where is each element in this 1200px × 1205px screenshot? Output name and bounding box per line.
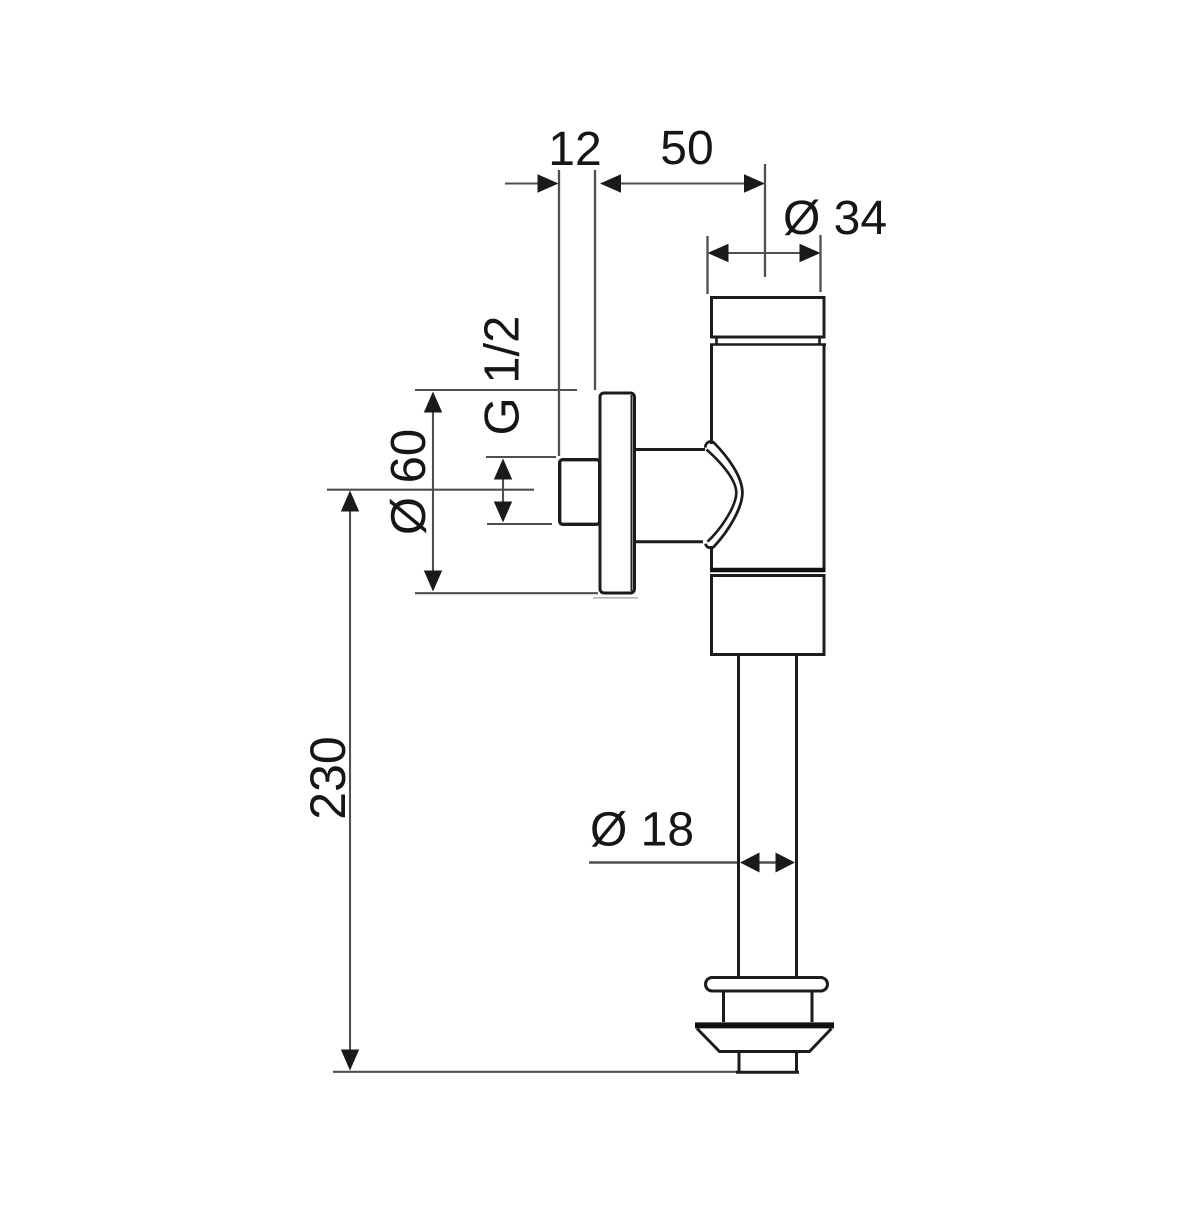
- arrow 12 left (pointing right): [538, 174, 559, 192]
- arrow 50 left (pointing left): [600, 174, 621, 192]
- dimension Ø60 label (rotated): [382, 429, 436, 535]
- extension line x=765 (pipe axis): [764, 164, 766, 277]
- tick 230 top (inlet axis centerline): [327, 489, 534, 491]
- arrow G1/2 top (pointing up): [494, 459, 512, 480]
- joint band (thick): [710, 568, 826, 573]
- arrow 50 right (pointing right): [744, 174, 765, 192]
- extension line x=595 (flange face): [594, 170, 596, 390]
- svg-text:Ø 34: Ø 34: [783, 192, 887, 245]
- svg-text:230: 230: [300, 736, 356, 819]
- arrow Ø18 left (pointing left): [740, 853, 760, 873]
- dimension 12 label: [548, 123, 601, 176]
- svg-text:50: 50: [660, 122, 713, 175]
- dome inner curve: [707, 450, 737, 542]
- push button: [560, 460, 600, 525]
- dimension Ø18 label: [590, 804, 694, 857]
- dim line Ø34: [726, 252, 800, 254]
- arrow Ø18 right (pointing right): [776, 853, 796, 873]
- arrow 230 bottom (pointing down): [341, 1050, 359, 1071]
- gasket cylinder: [724, 991, 813, 1022]
- top cap of valve body: [712, 298, 825, 338]
- leader line Ø18: [589, 861, 738, 864]
- inlet pipe bottom line: [636, 540, 703, 543]
- dim Ø60 vertical line: [432, 412, 434, 572]
- svg-text:Ø 18: Ø 18: [590, 804, 694, 857]
- svg-text:12: 12: [548, 123, 601, 176]
- dim line 12/50 horizontal: [505, 182, 747, 184]
- outlet downpipe: [739, 656, 797, 977]
- tick G1/2 top: [486, 456, 556, 458]
- svg-text:Ø 60: Ø 60: [382, 429, 436, 535]
- extension line Ø34 left: [706, 236, 708, 294]
- tick Ø60 bottom: [415, 592, 598, 594]
- arrow Ø34 left (pointing left): [708, 244, 729, 262]
- svg-text:G 1/2: G 1/2: [476, 316, 530, 436]
- wall flange plate: [600, 393, 635, 593]
- bottom collar (stadium ring): [706, 978, 828, 992]
- dimension 230 label (rotated): [300, 736, 356, 819]
- cap groove: [710, 338, 826, 345]
- extension line Ø34 right: [819, 235, 821, 292]
- cone (tapered seal): [697, 1029, 832, 1052]
- dimension Ø34 label: [783, 192, 887, 245]
- arrow Ø60 bottom (pointing down): [424, 571, 442, 592]
- inlet pipe top line: [636, 448, 705, 451]
- tick G1/2 bottom: [487, 523, 552, 525]
- dim 230 vertical line: [349, 510, 351, 1051]
- arrow 230 top (pointing up): [341, 491, 359, 512]
- arrow Ø34 right (pointing right): [800, 244, 821, 262]
- tick Ø60 top: [415, 389, 577, 391]
- dim G1/2 vertical line: [502, 477, 504, 505]
- dim line Ø18 between arrows: [758, 861, 777, 864]
- valve body upper section: [712, 345, 825, 568]
- dimension 50 label: [660, 122, 713, 175]
- joint lower line: [710, 574, 826, 577]
- arrow Ø60 top (pointing up): [424, 392, 442, 413]
- wide seal bar (thick): [695, 1022, 834, 1028]
- flange bottom shadow line: [593, 597, 638, 599]
- dimension G 1/2 label (rotated): [476, 316, 530, 436]
- flange inner edge line: [631, 395, 633, 591]
- valve body lower section: [712, 576, 825, 655]
- arrow G1/2 bottom (pointing down): [494, 502, 512, 523]
- extension line x=559 (button face): [558, 170, 560, 456]
- tailpipe: [736, 1052, 799, 1073]
- dome outer curve: [705, 442, 742, 548]
- tick 230 bottom: [333, 1071, 737, 1073]
